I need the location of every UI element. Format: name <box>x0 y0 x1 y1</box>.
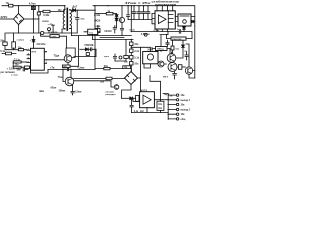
svg-text:выход 1: выход 1 <box>181 100 191 102</box>
svg-text:НУ028: НУ028 <box>42 21 49 23</box>
svg-text:5,1к: 5,1к <box>0 50 5 53</box>
svg-text:5П202Е: 5П202Е <box>85 44 94 47</box>
svg-text:10мк: 10мк <box>147 48 154 51</box>
svg-text:10в: 10в <box>181 105 186 107</box>
svg-text:общ: общ <box>181 118 186 121</box>
svg-text:и тока: и тока <box>11 74 18 76</box>
svg-text:СВ4тд: СВ4тд <box>157 48 164 51</box>
svg-text:6,43к: 6,43к <box>94 14 101 17</box>
svg-text:выход 2: выход 2 <box>181 110 191 112</box>
svg-text:автомат: автомат <box>106 92 116 94</box>
svg-text:ПК20: ПК20 <box>94 19 101 22</box>
svg-text:5,1к: 5,1к <box>134 57 139 60</box>
svg-text:4,7мк: 4,7мк <box>29 2 36 5</box>
svg-text:С1 1к: С1 1к <box>14 60 21 62</box>
svg-text:Пчм: Пчм <box>58 77 63 79</box>
svg-text:+7в: +7в <box>50 67 55 70</box>
svg-text:500мк: 500мк <box>63 68 71 70</box>
svg-text:МК б: МК б <box>163 76 169 79</box>
svg-text:2,2к: 2,2к <box>134 50 139 53</box>
svg-text:5: 5 <box>28 61 29 63</box>
svg-text:15о: 15о <box>15 65 20 67</box>
svg-text:10в: 10в <box>181 114 186 116</box>
svg-text:2: 2 <box>28 49 29 51</box>
svg-text:разрядки: разрядки <box>106 94 117 96</box>
svg-text:1м: 1м <box>170 95 173 97</box>
svg-text:6,43к: 6,43к <box>94 25 101 28</box>
svg-text:Дн7: Дн7 <box>72 6 77 9</box>
svg-text:стабил: стабил <box>17 39 25 42</box>
svg-text:ПВ: ПВ <box>124 67 128 69</box>
svg-text:47мк × 25v: 47мк × 25v <box>125 1 152 5</box>
svg-text:100мк: 100мк <box>59 91 67 93</box>
svg-text:6,3юм: 6,3юм <box>75 92 82 94</box>
svg-text:4,8/2мк: 4,8/2мк <box>141 33 150 36</box>
svg-text:220V: 220V <box>1 15 8 19</box>
svg-text:КР10: КР10 <box>32 52 37 54</box>
svg-text:6Лал: 6Лал <box>51 87 57 89</box>
svg-text:+ 47у: + 47у <box>48 23 54 26</box>
svg-text:47м: 47м <box>81 18 85 21</box>
svg-text:СК2С2: СК2С2 <box>104 31 112 33</box>
svg-text:0,3юм: 0,3юм <box>78 68 85 70</box>
svg-text:0,43к: 0,43к <box>43 14 50 17</box>
svg-text:10,5в: 10,5в <box>129 29 135 31</box>
svg-text:4ОП.2: 4ОП.2 <box>141 89 148 92</box>
svg-text:2Н=22н: 2Н=22н <box>37 43 46 46</box>
svg-text:0,1мк: 0,1мк <box>154 30 161 32</box>
svg-text:СВ4058А: СВ4058А <box>172 38 182 41</box>
svg-text:Т2дн: Т2дн <box>54 54 60 57</box>
svg-text:напряжения: напряжения <box>155 3 177 6</box>
svg-text:8: 8 <box>28 57 29 59</box>
svg-text:Ша: Ша <box>40 89 45 93</box>
svg-text:МУ028: МУ028 <box>51 32 59 34</box>
svg-text:1сд: 1сд <box>177 29 181 31</box>
svg-text:12в: 12в <box>181 95 186 97</box>
